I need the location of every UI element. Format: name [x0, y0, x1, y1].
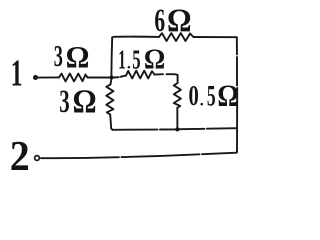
- label R3 value 1.5 ohm: [118, 44, 165, 75]
- resistor R 3ohm horizontal: [59, 74, 88, 82]
- svg-text:.: .: [200, 92, 204, 109]
- label R5 value 0.5 ohm: [189, 79, 239, 113]
- svg-text:2: 2: [10, 132, 30, 179]
- resistor R 0.5ohm vertical: [174, 83, 181, 108]
- node B junction dot: [175, 127, 179, 131]
- wire R 3ohm to node A: [88, 77, 111, 79]
- svg-text:3: 3: [59, 83, 69, 119]
- svg-text:1: 1: [118, 45, 125, 75]
- svg-text:Ω: Ω: [217, 79, 238, 113]
- wire terminal1 to R 3ohm: [38, 76, 60, 78]
- svg-text:0: 0: [189, 81, 199, 112]
- svg-text:.: .: [127, 55, 131, 72]
- wire top rail left: [112, 36, 159, 39]
- svg-text:6: 6: [154, 3, 165, 40]
- wire R 3ohm vertical to bottom left corner: [110, 115, 112, 130]
- node A junction dot: [109, 75, 113, 79]
- svg-text:Ω: Ω: [66, 39, 90, 74]
- wire top rail right: [194, 36, 237, 38]
- svg-text:3: 3: [54, 38, 63, 73]
- wire R 1.5ohm to corner above R 0.5ohm: [155, 74, 178, 83]
- svg-text:Ω: Ω: [167, 2, 192, 38]
- wire right vertical: [236, 37, 238, 151]
- wire bottom rail: [41, 152, 237, 159]
- svg-text:1: 1: [11, 52, 23, 94]
- terminal 1 dot: [33, 75, 38, 80]
- label R4 value 3 ohm (vertical): [59, 83, 96, 120]
- svg-text:5: 5: [132, 44, 140, 74]
- wire R 0.5ohm to node B: [176, 108, 178, 128]
- svg-text:5: 5: [207, 80, 216, 113]
- terminal 2 open dot: [35, 156, 40, 161]
- wire node A to R 1.5ohm: [114, 76, 127, 78]
- resistor R 3ohm vertical: [106, 85, 113, 115]
- svg-text:Ω: Ω: [73, 83, 97, 120]
- label R1 value 3 ohm (horizontal): [54, 38, 90, 74]
- label R2 value 6 ohm: [154, 2, 191, 39]
- svg-text:Ω: Ω: [144, 44, 165, 75]
- resistor R 1.5ohm: [126, 71, 155, 79]
- wire node A up to top rail: [110, 38, 113, 76]
- wire bottom middle rail: [113, 128, 237, 130]
- resistor R 6ohm: [159, 33, 194, 41]
- wire node A down to R 3ohm vertical: [110, 80, 113, 85]
